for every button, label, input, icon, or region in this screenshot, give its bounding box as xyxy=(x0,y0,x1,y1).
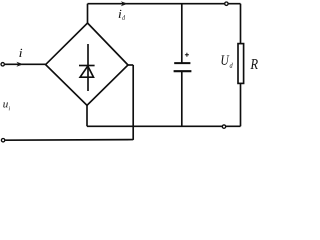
capacitor C top lead xyxy=(181,4,183,63)
bridge rectifier diamond xyxy=(46,23,128,105)
wire bottom left xyxy=(5,139,133,142)
resistor R top lead xyxy=(240,4,242,44)
diode D triangle xyxy=(80,66,93,77)
terminal input bottom left circle xyxy=(1,139,4,142)
diode D vertical lead xyxy=(87,44,89,91)
terminal output plus (top right circle) xyxy=(225,2,228,5)
capacitor C bottom plate xyxy=(174,70,192,72)
wire bridge bottom vertex down to bottom rail xyxy=(86,105,88,126)
wire stub from bridge right vertex xyxy=(128,64,133,66)
wire input to bridge left vertex xyxy=(5,63,46,65)
capacitor C top plate xyxy=(174,62,190,64)
label U_d xyxy=(222,55,230,65)
wire from top rail down to bridge top vertex xyxy=(87,4,89,23)
terminal input top left circle xyxy=(1,63,4,66)
wire top rail xyxy=(88,3,241,5)
capacitor C bottom lead xyxy=(181,71,183,126)
capacitor C plus polarity mark xyxy=(185,53,189,57)
arrow i on input wire xyxy=(16,62,23,67)
label R xyxy=(250,59,257,69)
diode D cathode bar xyxy=(79,65,95,67)
terminal output minus (bottom right circle) xyxy=(222,125,225,128)
arrow id on top rail xyxy=(121,1,128,6)
resistor R box xyxy=(238,44,244,84)
wire right vertex down to bottom left wire xyxy=(132,65,134,140)
wire bottom rail xyxy=(87,125,241,127)
label u_i xyxy=(3,102,8,107)
label i xyxy=(19,49,22,57)
label i_d xyxy=(119,10,122,18)
resistor R bottom lead xyxy=(240,83,242,126)
